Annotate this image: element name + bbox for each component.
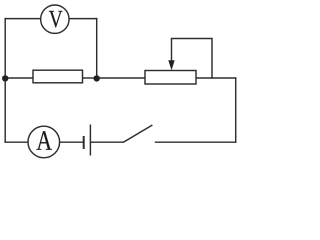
wire right rail	[235, 78, 237, 142]
wire top: voltmeter right terminal to corner above node B	[69, 18, 97, 20]
wire: rheostat slider top loop	[172, 39, 213, 79]
wire: node B to rheostat left terminal	[97, 77, 145, 79]
wire: resistor right terminal to node B	[83, 77, 97, 79]
resistor	[33, 70, 83, 83]
battery negative plate (short thick)	[83, 136, 85, 149]
wire: rheostat right terminal to right rail	[196, 77, 236, 79]
wire bottom: left rail to ammeter	[5, 141, 28, 143]
wire: battery positive plate to switch contact	[91, 141, 123, 143]
battery positive plate (long thin)	[89, 125, 91, 156]
wire top: voltmeter left terminal to top-left corner	[5, 18, 41, 20]
rheostat slider arrow	[168, 39, 174, 71]
rheostat body	[145, 71, 196, 85]
wire: node A to resistor left terminal	[5, 77, 33, 79]
switch open blade	[123, 125, 152, 142]
wire: switch right contact to right rail	[156, 141, 236, 143]
wire left rail	[4, 19, 6, 143]
node A junction dot	[2, 75, 8, 81]
wire: ammeter to battery negative plate	[59, 141, 83, 143]
ammeter A	[28, 126, 60, 158]
voltmeter V	[41, 5, 69, 33]
wire vertical from top down to node B	[96, 19, 98, 78]
node B junction dot	[94, 75, 100, 81]
